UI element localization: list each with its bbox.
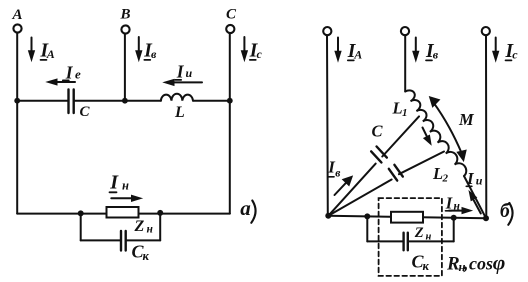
svg-text:C: C <box>226 7 237 23</box>
svg-text:I: I <box>466 169 475 188</box>
wire right diagram B column <box>404 36 406 92</box>
wire phase A column <box>16 33 18 214</box>
capacitor CK right plates <box>404 233 408 251</box>
terminal right 1 <box>323 27 331 35</box>
capacitor C plates <box>69 90 74 114</box>
current arrow Iu (right diagram) <box>466 169 483 214</box>
wire phase B column <box>124 34 126 101</box>
svg-text:I: I <box>109 172 119 194</box>
svg-text:M: M <box>458 110 475 129</box>
wire CK branch right vertical <box>159 213 161 241</box>
svg-text:и: и <box>476 173 483 187</box>
small coil current arrow <box>423 128 432 145</box>
load ZH rectangle (right) <box>391 212 423 223</box>
svg-text:L: L <box>392 99 403 118</box>
current arrow Iu (points left) <box>164 61 202 85</box>
current arrow IH (right, points right) <box>445 193 472 213</box>
terminal C <box>226 7 237 34</box>
load ZH rectangle <box>107 207 139 218</box>
node load left <box>78 210 84 216</box>
node right diagram right <box>483 215 489 221</box>
svg-text:φ: φ <box>493 251 506 275</box>
wire CK horizontal left <box>81 239 121 241</box>
svg-text:B: B <box>120 7 131 23</box>
wire inductor to C column <box>193 100 230 102</box>
wire upper diagonal node to plate <box>328 164 375 216</box>
svg-text:A: A <box>46 47 55 61</box>
svg-text:в: в <box>151 47 157 61</box>
wire CK right branch left vertical <box>366 216 368 241</box>
svg-text:с: с <box>512 48 518 62</box>
svg-text:,: , <box>463 254 469 275</box>
svg-text:I: I <box>176 61 185 81</box>
current arrow IA (left) <box>29 38 55 62</box>
inductor coil L1+L2 <box>405 90 466 176</box>
wire right bottom bus <box>328 216 486 218</box>
svg-text:н: н <box>147 224 154 236</box>
svg-text:к: к <box>143 249 150 263</box>
svg-text:н: н <box>122 179 129 193</box>
current arrow IB (right) <box>413 38 439 63</box>
svg-text:в: в <box>433 48 439 62</box>
svg-text:cos: cos <box>469 254 493 274</box>
svg-text:L: L <box>174 104 185 121</box>
svg-text:2: 2 <box>442 173 449 185</box>
svg-text:1: 1 <box>402 107 408 119</box>
svg-text:A: A <box>353 48 362 62</box>
label b) paren <box>508 203 512 225</box>
current arrow IH (points right) <box>109 172 141 202</box>
svg-text:C: C <box>80 104 91 120</box>
wire right diagram C column <box>485 36 487 219</box>
wire CK right branch right vertical <box>453 218 455 242</box>
label a) paren <box>251 201 255 223</box>
node at B bus junction <box>122 98 128 104</box>
node load right <box>157 210 163 216</box>
wire coil end to right node <box>464 176 486 218</box>
wire top bus capacitor to B <box>74 100 161 102</box>
current arrow Ie (points left) <box>47 63 81 85</box>
dashed measurement box <box>379 198 442 276</box>
capacitor CK plates <box>121 231 126 251</box>
svg-text:A: A <box>12 7 23 23</box>
node at A bus junction <box>14 98 20 104</box>
capacitor C right plates <box>371 147 387 163</box>
wire lower diagonal plate to coil tap <box>399 152 444 175</box>
svg-text:e: e <box>75 67 81 82</box>
current arrow IB (left) <box>136 37 157 62</box>
node right diagram left <box>325 213 331 219</box>
svg-text:Z: Z <box>414 225 424 241</box>
svg-text:с: с <box>257 47 263 61</box>
current arrow IC (right) <box>493 38 519 63</box>
wire phase C column <box>229 34 231 214</box>
current arrow IB diag <box>327 158 352 196</box>
node at C bus junction <box>227 98 233 104</box>
current arrow IA (right) <box>335 38 362 63</box>
wire top bus left of capacitor <box>17 100 68 102</box>
wire bottom bus <box>17 213 230 215</box>
mutual coupling arrow M <box>430 97 467 161</box>
wire lower diagonal node to plate <box>328 180 391 216</box>
wire CK horizontal right <box>126 239 160 241</box>
svg-text:L: L <box>432 164 443 183</box>
wire CK right horizontal left <box>367 240 403 242</box>
terminal right 2 <box>401 27 409 35</box>
terminal A <box>12 7 23 33</box>
svg-text:в: в <box>335 168 340 180</box>
inductor L <box>161 94 193 101</box>
node CK branch right <box>451 215 457 221</box>
wire right diagram left column <box>326 36 329 217</box>
capacitor C2 plates <box>389 165 403 181</box>
wire CK right horizontal right <box>408 240 454 242</box>
wire CK branch left vertical <box>80 213 82 240</box>
svg-text:к: к <box>423 259 430 273</box>
node CK branch left <box>364 213 370 219</box>
terminal B <box>120 7 131 34</box>
wire upper diagonal plate to coil tap <box>382 116 419 156</box>
svg-text:Z: Z <box>134 218 145 235</box>
svg-text:C: C <box>372 122 384 141</box>
terminal right 3 <box>482 27 490 35</box>
svg-text:а: а <box>240 196 251 220</box>
svg-text:I: I <box>445 193 453 212</box>
svg-text:u: u <box>186 66 193 80</box>
current arrow IC (left) <box>241 37 262 62</box>
